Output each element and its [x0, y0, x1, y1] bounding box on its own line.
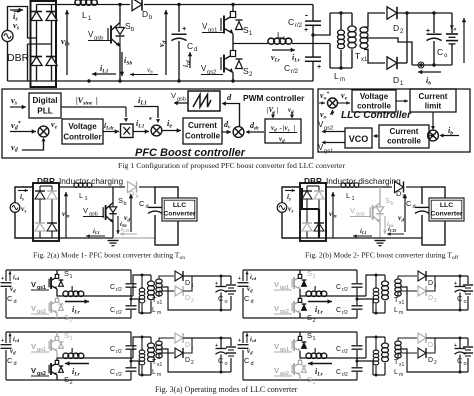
svg-text:T: T [355, 51, 360, 61]
diode dbr tr fig21 [47, 191, 57, 199]
label Vgs2 ctrl [318, 120, 333, 132]
svg-text:b: b [124, 201, 127, 207]
arrow vin fig22 [329, 192, 337, 238]
wire primary bottom rail m1 [139, 312, 151, 315]
svg-text:m: m [157, 372, 161, 378]
wire co leg m2 [459, 276, 461, 310]
label vLr fig1 [271, 53, 281, 63]
wire top rail m1 [6, 269, 131, 271]
label iL1 star [136, 117, 152, 129]
wire lr out fig1 [292, 43, 330, 45]
wire capmid to primary bottom m4 [357, 361, 373, 375]
label vd fb [11, 142, 19, 154]
svg-text:S: S [64, 313, 69, 322]
Current Controller box [183, 118, 222, 144]
label Lm m1 [152, 307, 161, 316]
label PFC Boost controller [135, 147, 246, 159]
label Tx1 m4 [394, 359, 405, 368]
svg-text:d: d [14, 361, 17, 367]
svg-text:d: d [251, 299, 254, 305]
battery m1 [226, 276, 236, 310]
capacitor Cr2 top m1 [126, 284, 137, 287]
arrow vs to pll [10, 105, 26, 109]
svg-text:r/2: r/2 [342, 310, 348, 316]
arrow vo fig1 [462, 18, 466, 63]
arrow iLr m1 [65, 299, 89, 315]
wire bottom rail m4 [243, 379, 357, 381]
svg-text:C: C [284, 63, 290, 73]
svg-text:x1: x1 [361, 57, 368, 63]
arrow iLr m3 [65, 361, 89, 377]
arrow cc to sum3 [222, 130, 231, 134]
inductor Lm m3 [139, 337, 145, 375]
label Vgsb fig22 [350, 206, 371, 218]
LLC converter box fig21 [162, 198, 197, 221]
battery m4 [463, 338, 473, 372]
wire capmid to primary fig1 [313, 13, 330, 35]
diode Db fig1 [132, 0, 142, 11]
svg-text:D: D [428, 295, 433, 302]
wire top rail fig21 [59, 186, 155, 188]
svg-text:x1: x1 [157, 300, 163, 306]
svg-text:S: S [118, 196, 123, 205]
wire primary bottom rail m3 [139, 374, 151, 377]
wire dbr legs fig22 [307, 186, 319, 238]
ground fig22 [375, 241, 386, 246]
wire ac loop fig22 [282, 187, 300, 238]
label vd m4 [247, 347, 253, 356]
label ib ctrl [448, 126, 453, 136]
label Vsine [76, 96, 98, 106]
label mode title fig21 [59, 176, 123, 186]
svg-text:C: C [218, 356, 224, 365]
capacitor Cd m3 [1, 338, 12, 348]
wire d1 out fig1 [397, 13, 407, 63]
transistor Sb fig22 [370, 187, 384, 238]
label Cd m3 [7, 356, 17, 367]
label Db fig1 [142, 9, 153, 21]
label ie [167, 118, 172, 130]
label iL1 fb [138, 95, 147, 107]
label Sb fig21 [118, 196, 127, 207]
wire center tap fig1 [366, 38, 412, 65]
arrow icd fig1 [188, 52, 192, 68]
svg-text:D: D [185, 357, 190, 364]
wire primary bottom rail fig1 [330, 66, 352, 69]
wire d1 out m1 [183, 275, 231, 278]
wire d2 join m2 [426, 276, 435, 291]
Digital PLL box [29, 93, 61, 118]
wire d2 join m1 [183, 276, 192, 291]
svg-text:D: D [393, 23, 399, 33]
transformer primary m2 [382, 275, 389, 313]
arrow sum5 to cc2 [430, 134, 434, 138]
svg-text:C: C [244, 294, 250, 303]
svg-text:D: D [396, 189, 402, 198]
wire capmid to primary bottom m3 [131, 361, 139, 375]
battery fig1 [446, 13, 458, 65]
inductor L1 fig1 [75, 0, 97, 22]
wire d1 out m4 [426, 337, 468, 340]
wire primary bottom rail m4 [373, 374, 385, 377]
svg-text:C: C [288, 17, 294, 27]
arrow vsine into mult [124, 107, 128, 122]
wire left leg m2 [242, 270, 244, 318]
svg-text:C: C [244, 356, 250, 365]
Voltage Controller box [62, 119, 103, 144]
label S1 m4 [307, 331, 316, 342]
arrow iL1 fig21 [86, 228, 105, 238]
arrow vdref to sum1 [10, 129, 36, 133]
sum junction 2 [151, 125, 162, 136]
wire co leg m4 [459, 338, 461, 372]
svg-text:L: L [314, 347, 319, 356]
svg-text:DBR: DBR [37, 176, 55, 186]
label vs ctrl [11, 95, 18, 107]
sum junction 1 [38, 126, 49, 137]
caption fig3 [155, 385, 298, 394]
svg-text:Converter: Converter [430, 211, 462, 218]
arrow cc2 to vco [373, 134, 379, 138]
label S1 m1 [64, 269, 73, 280]
wire center tap m1 [162, 287, 231, 312]
arrow icd m2 [245, 271, 256, 281]
wire bottom rail m3 [6, 379, 131, 381]
wire sb top fig1 [118, 3, 121, 21]
capacitor Cd fig22 [414, 204, 435, 215]
capacitor Co m3 [215, 343, 227, 354]
wire d2 join m4 [426, 338, 435, 353]
label Vgs1 m1 [31, 280, 49, 291]
label S1 m2 [307, 269, 316, 280]
wire dbr tap2 fig1 [28, 44, 52, 81]
svg-text:C: C [7, 356, 13, 365]
arrow iLr m2 [308, 299, 332, 315]
label D1 fig1 [393, 75, 404, 87]
svg-text:r: r [283, 36, 285, 42]
svg-text:gs1: gs1 [324, 149, 333, 155]
svg-text:D: D [428, 280, 433, 287]
svg-text:S: S [64, 375, 69, 384]
svg-text:L: L [82, 10, 87, 20]
svg-text:L: L [334, 71, 339, 81]
inductor Lm fig1 [338, 13, 345, 68]
svg-text:2: 2 [434, 298, 437, 304]
transistor S1 m1 [49, 270, 63, 296]
label Cd m4 [244, 356, 254, 367]
label vs fig1 [13, 20, 20, 32]
label Digital PLL [32, 96, 57, 116]
Voltage controlle box [352, 90, 396, 112]
label iLr fig1 [292, 53, 301, 63]
label S2 m4 [307, 375, 316, 386]
svg-text:C: C [336, 346, 341, 353]
svg-text:V: V [274, 304, 279, 313]
label Cr2 top m2 [336, 284, 348, 293]
arrow icd m4 [245, 333, 256, 343]
label DBR fig21 [37, 176, 55, 186]
svg-text:d: d [146, 204, 149, 210]
wire sec top m1 [159, 276, 174, 279]
label D2 fig1 [393, 23, 404, 35]
label Cr2 top m4 [336, 346, 348, 355]
svg-text:+: + [182, 24, 187, 33]
label Cr2 bot m4 [336, 369, 348, 378]
transformer secondary m2 [395, 279, 401, 296]
capacitor Cr2 bot m3 [126, 368, 137, 371]
transformer secondary fig1 [360, 27, 368, 48]
svg-text:+: + [215, 343, 218, 349]
transformer secondary m1 [156, 279, 162, 296]
svg-text:+: + [215, 281, 218, 287]
svg-text:D: D [393, 75, 399, 85]
label ve1 [51, 120, 58, 130]
svg-text:S: S [64, 331, 69, 340]
capacitor Co m1 [215, 281, 227, 292]
label S2 m2 [307, 313, 316, 324]
arrow vgsb out [174, 101, 189, 105]
label vd fig1 [164, 10, 168, 75]
label iLdc [104, 121, 115, 131]
ac source vs fig22 [277, 203, 287, 213]
wire sec top m4 [398, 338, 417, 341]
svg-text:DBR: DBR [304, 176, 322, 186]
inductor Lr m4 [306, 347, 327, 358]
label DBR fig1 [7, 52, 30, 64]
wire to primary top m4 [366, 336, 385, 359]
diode D1 fig1 [387, 57, 397, 69]
svg-text:C: C [110, 284, 115, 291]
arrow is fig21 [18, 189, 28, 202]
label ib fig1 [426, 76, 431, 86]
svg-text:L: L [152, 307, 156, 314]
diode dbr bl fig21 [35, 223, 45, 231]
diode dbr tr fig22 [314, 191, 324, 199]
svg-text:+: + [426, 28, 430, 35]
DBR box fig21 [33, 183, 59, 241]
svg-text:2: 2 [313, 318, 316, 324]
svg-text:o: o [225, 361, 228, 367]
arrow icd fig21 [120, 226, 137, 236]
wire center tap m3 [162, 349, 231, 374]
svg-text:VCO: VCO [349, 134, 369, 144]
svg-text:D: D [428, 342, 433, 349]
wire bottom rail fig22 [300, 237, 422, 239]
wire bottom rail fig21 [33, 237, 155, 239]
DBR box fig22 [300, 183, 326, 241]
svg-text:LLC: LLC [173, 202, 186, 209]
diode dbr br fig22 [314, 223, 324, 231]
label vs fig22 [288, 204, 293, 214]
svg-text:+: + [238, 276, 241, 282]
label Cr2 bot m1 [110, 307, 122, 316]
wire iL1 fb [134, 107, 160, 124]
diode dbr tl fig22 [302, 191, 312, 199]
label Lm m3 [152, 369, 161, 378]
sum junction 5 [428, 130, 439, 141]
label Cr2 bot m2 [336, 307, 348, 316]
svg-text:m: m [399, 310, 403, 316]
transformer secondary m4 [395, 341, 401, 358]
svg-text:V: V [31, 366, 36, 375]
arrow is fig1 [10, 8, 23, 12]
ground fig21 [108, 241, 119, 246]
wire d to sawtooth [222, 101, 240, 126]
svg-text:r/2: r/2 [291, 69, 299, 75]
label Vs in pwm [267, 106, 279, 115]
junction dots bottom fig1 [87, 79, 234, 82]
label is fig1 [13, 10, 20, 22]
capacitor Cd fig1 [172, 24, 188, 41]
label Current controlle [387, 127, 421, 146]
label Lm m4 [394, 369, 403, 378]
capacitor Cr2 bot m4 [352, 368, 363, 371]
arrow vc2 to climit [396, 99, 408, 103]
svg-text:2: 2 [70, 318, 73, 324]
svg-text:L: L [314, 285, 319, 294]
svg-text:V: V [31, 304, 36, 313]
label Vgs1 m3 [31, 342, 49, 353]
wire bottom rail m2 [243, 317, 357, 319]
wire cr leg m4 [356, 332, 359, 380]
wire d2 out fig1 [397, 11, 452, 14]
label Tx1 m1 [152, 297, 163, 306]
arrow iSb fig21 [116, 216, 127, 234]
capacitor Cr2 top fig1 [304, 10, 321, 34]
svg-text:C: C [336, 284, 341, 291]
wire co leg m3 [220, 338, 222, 372]
svg-text:LLC: LLC [440, 202, 453, 209]
label Vgsb fig21 [83, 206, 104, 218]
label S1 m3 [64, 331, 73, 342]
label Cd fig21 [139, 199, 149, 210]
label Vgs1 ctrl [318, 143, 333, 155]
wire center tap m2 [401, 287, 468, 312]
svg-text:d: d [413, 204, 416, 210]
label Cd fig1 [187, 41, 197, 53]
diode Db fig22 [395, 181, 406, 200]
wire sec bot m4 [398, 353, 417, 359]
arrow div to sum3 [246, 130, 265, 134]
svg-text:+: + [304, 27, 308, 34]
wire primary bottom rail m2 [373, 312, 385, 315]
arrow icd m3 [8, 333, 19, 343]
svg-text:D: D [185, 342, 190, 349]
svg-text:b: b [391, 201, 394, 207]
svg-text:Converter: Converter [163, 211, 195, 218]
caption fig2a [33, 251, 185, 262]
label Cd m2 [244, 294, 254, 305]
svg-text:S: S [307, 269, 312, 278]
wire top rail fig1 [37, 4, 314, 6]
svg-text:L: L [394, 369, 398, 376]
label Cd m1 [7, 294, 17, 305]
inductor Lm m1 [139, 275, 145, 313]
label vd in pwm [288, 106, 294, 115]
transistor S1 m2 [292, 270, 306, 296]
svg-text:r/2: r/2 [342, 349, 348, 355]
arrow voref to sum4 [319, 101, 325, 105]
svg-text:L: L [394, 307, 398, 314]
wire sec bot m1 [159, 291, 174, 297]
diode dbr br fig21 [47, 223, 57, 231]
wire cr leg m1 [130, 270, 133, 318]
label Vgsb fig1 [88, 30, 112, 42]
label Current Controller [185, 121, 221, 141]
wire cd leg fig1 [177, 3, 180, 83]
svg-text:controlle: controlle [387, 137, 421, 146]
transformer primary fig1 [348, 13, 356, 68]
svg-text:2: 2 [313, 380, 316, 386]
svg-text:L: L [79, 191, 83, 200]
svg-text:Current: Current [188, 121, 217, 130]
arrow mult to sum2 [133, 129, 149, 133]
svg-text:1: 1 [85, 196, 88, 202]
wire dbr legs fig21 [40, 186, 52, 238]
svg-text:d: d [251, 361, 254, 367]
wire sec bot m3 [159, 353, 174, 359]
svg-text:m: m [399, 372, 403, 378]
arrow iL1 fig1 [92, 64, 116, 76]
svg-text:1: 1 [70, 336, 73, 342]
svg-text:DBR: DBR [7, 52, 30, 64]
wire midline m4 [300, 357, 366, 359]
label Vgs2 m3 [31, 366, 49, 377]
capacitor Co m2 [454, 281, 466, 292]
label S2 m1 [64, 313, 73, 324]
wire midline m3 [57, 357, 133, 359]
label vd m3 [10, 347, 16, 356]
svg-text:C: C [336, 369, 341, 376]
wire sec top m3 [159, 338, 174, 341]
svg-text:V: V [274, 366, 279, 375]
svg-text:V: V [171, 91, 176, 100]
loop rect fig22 [422, 187, 445, 245]
wire midline fig1 [233, 43, 268, 45]
svg-text:+: + [317, 64, 321, 71]
wire center tap m4 [401, 349, 468, 374]
svg-text:V: V [31, 280, 36, 289]
svg-text:V: V [31, 342, 36, 351]
svg-text:C: C [406, 199, 412, 208]
wire d1 out m2 [426, 275, 468, 278]
transistor S2 m4 [292, 358, 306, 380]
svg-text:C: C [336, 307, 341, 314]
label Cd fig22 [406, 199, 416, 210]
capacitor Cr2 bot m2 [352, 306, 363, 309]
label vd m2 [247, 285, 253, 294]
inductor L1 fig21 [74, 183, 92, 202]
wire co leg fig1 [433, 13, 435, 65]
svg-text:d: d [194, 47, 197, 53]
transformer primary m1 [148, 275, 155, 313]
loop rect fig21 [155, 187, 178, 245]
arrow icd fig22 [387, 226, 404, 236]
svg-text:r/2: r/2 [116, 372, 122, 378]
transformer secondary m3 [156, 341, 162, 358]
diode dbr D3 fig1 [31, 57, 42, 66]
svg-text:x1: x1 [399, 362, 405, 368]
diode dbr tl fig21 [35, 191, 45, 199]
wire out bottom fig1 [412, 62, 452, 68]
bold conduction path fig22 [302, 188, 319, 238]
svg-text:1: 1 [313, 336, 316, 342]
label Voltage controlle [357, 92, 391, 111]
svg-text:PWM controller: PWM controller [243, 93, 305, 103]
wire co leg m1 [220, 276, 222, 310]
label Lm m2 [394, 307, 403, 316]
label Cr2 bot m3 [110, 369, 122, 378]
